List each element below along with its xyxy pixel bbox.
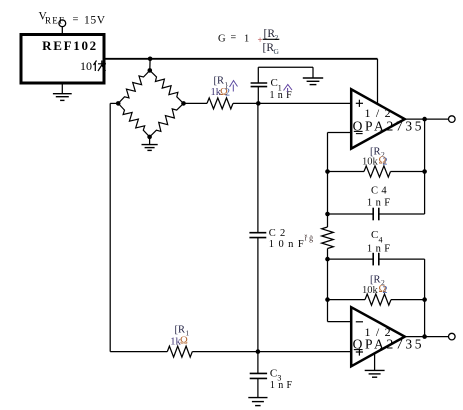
svg-text:2: 2 — [275, 33, 279, 42]
svg-text:1 n F: 1 n F — [270, 90, 293, 101]
svg-text:C: C — [270, 368, 277, 380]
svg-text:C: C — [271, 77, 278, 89]
svg-text:[R: [R — [175, 325, 186, 336]
svg-text:ř ġ: ř ġ — [305, 234, 314, 243]
svg-text:10k: 10k — [362, 157, 379, 168]
svg-text:1 n F: 1 n F — [367, 244, 391, 255]
svg-text:10k: 10k — [362, 285, 379, 296]
svg-text:G: G — [274, 47, 280, 56]
svg-text:10: 10 — [80, 59, 92, 73]
svg-text:G: G — [218, 34, 226, 45]
svg-text:=: = — [231, 33, 237, 44]
svg-text:15V: 15V — [84, 15, 106, 27]
svg-text:[R: [R — [214, 76, 225, 87]
svg-text:REF102: REF102 — [42, 38, 98, 53]
svg-text:C: C — [371, 229, 378, 241]
svg-text:OPA2735: OPA2735 — [353, 336, 425, 351]
svg-text:=: = — [73, 15, 79, 26]
svg-text:OPA2735: OPA2735 — [353, 119, 425, 134]
svg-text:2: 2 — [383, 285, 388, 296]
svg-text:2: 2 — [225, 88, 230, 99]
svg-text:1 n F: 1 n F — [270, 380, 293, 391]
svg-text:C 4: C 4 — [371, 186, 387, 197]
svg-text:Ω: Ω — [180, 336, 188, 347]
svg-text:1 n F: 1 n F — [367, 198, 391, 209]
svg-text:1: 1 — [244, 34, 249, 45]
svg-text:1 0 n F: 1 0 n F — [269, 239, 305, 250]
svg-text:C 2: C 2 — [269, 228, 286, 239]
svg-text:2: 2 — [383, 157, 388, 168]
